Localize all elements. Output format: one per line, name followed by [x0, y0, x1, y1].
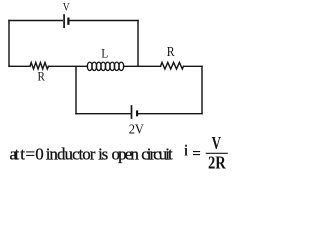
svg-text:is: is — [98, 144, 108, 163]
svg-text:R: R — [167, 45, 175, 60]
svg-text:circuit: circuit — [141, 144, 173, 163]
svg-text:V: V — [212, 133, 222, 153]
svg-text:inductor: inductor — [46, 144, 96, 163]
svg-text:2R: 2R — [208, 152, 226, 172]
svg-text:R: R — [38, 69, 46, 84]
svg-text:=: = — [192, 146, 201, 163]
svg-text:2V: 2V — [129, 123, 144, 138]
svg-text:L: L — [101, 46, 108, 61]
svg-text:=: = — [26, 144, 36, 163]
svg-text:at: at — [10, 144, 20, 163]
svg-text:V: V — [63, 0, 70, 14]
svg-text:open: open — [112, 144, 140, 163]
svg-text:i: i — [184, 143, 188, 160]
svg-text:0: 0 — [35, 144, 44, 163]
